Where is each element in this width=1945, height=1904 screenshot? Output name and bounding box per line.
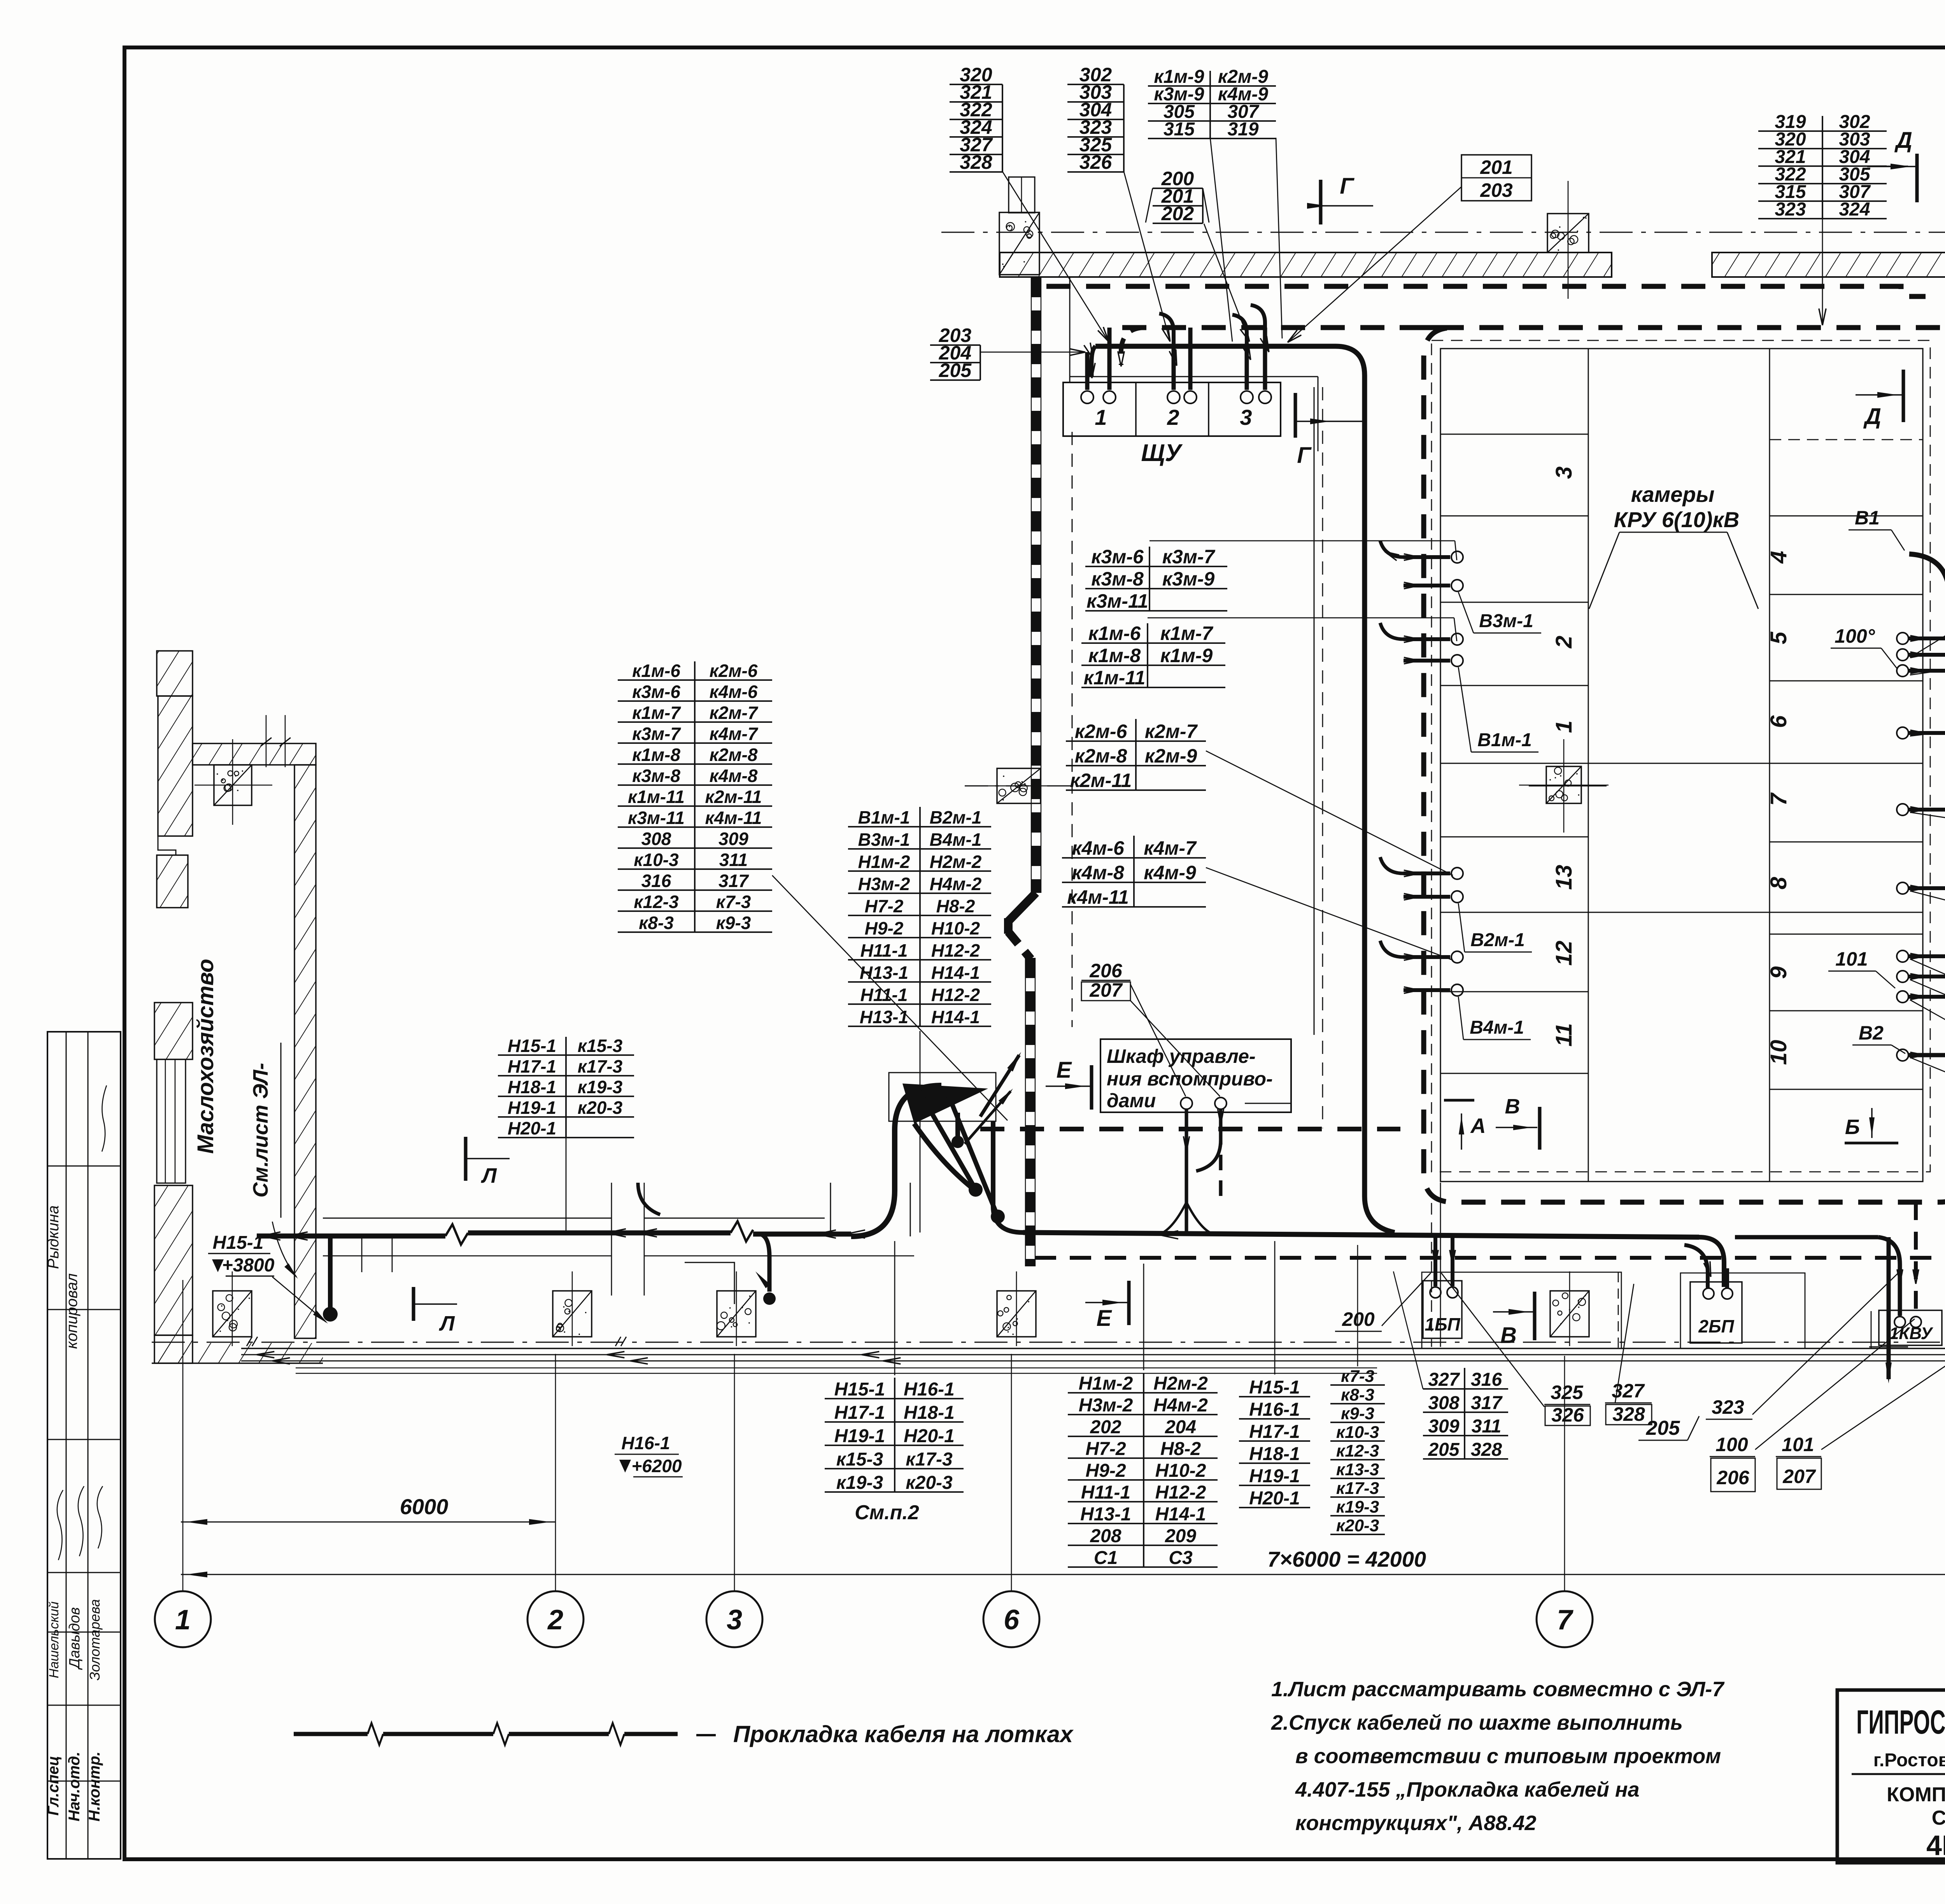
small exit box xyxy=(685,1262,734,1304)
leaders from 01-V2 group xyxy=(1910,959,1945,1078)
left cell cable stubs and circles xyxy=(1404,555,1450,559)
svg-text:2: 2 xyxy=(1551,636,1577,649)
svg-text:к2м-7: к2м-7 xyxy=(1145,721,1198,742)
svg-text:к20-3: к20-3 xyxy=(578,1098,623,1118)
svg-text:Е: Е xyxy=(1057,1057,1072,1083)
column axis1 row A xyxy=(213,1291,252,1337)
svg-text:Н8-2: Н8-2 xyxy=(936,896,975,916)
svg-text:Н1м-2: Н1м-2 xyxy=(1079,1373,1133,1394)
svg-text:Н10-2: Н10-2 xyxy=(1155,1460,1206,1481)
svg-text:10: 10 xyxy=(1766,1040,1791,1065)
svg-text:Г: Г xyxy=(1340,174,1354,199)
svg-text:205: 205 xyxy=(1428,1439,1460,1460)
leader from 325 xyxy=(1441,1273,1544,1407)
svg-text:ния вспомприво-: ния вспомприво- xyxy=(1107,1068,1273,1090)
svg-text:к19-3: к19-3 xyxy=(836,1473,883,1493)
leader from 100 to KVU xyxy=(1755,1319,1915,1450)
svg-text:Н9-2: Н9-2 xyxy=(1085,1460,1126,1481)
knot second cable curve xyxy=(914,1124,972,1188)
grid circle 3 xyxy=(706,1591,762,1647)
svg-text:ГИПРОСТРОЙДОРМАШ: ГИПРОСТРОЙДОРМАШ xyxy=(1856,1703,1945,1741)
svg-text:к7-3: к7-3 xyxy=(1341,1367,1374,1386)
svg-text:к12-3: к12-3 xyxy=(634,892,679,912)
maslo thickness dim ticks xyxy=(266,715,267,767)
svg-text:Е: Е xyxy=(1097,1306,1113,1331)
svg-text:+6200: +6200 xyxy=(631,1456,682,1476)
svg-text:к4м-6: к4м-6 xyxy=(710,682,758,702)
column axis7 row A xyxy=(1550,1291,1589,1337)
svg-text:В3м-1: В3м-1 xyxy=(858,829,910,850)
leader from table 302 xyxy=(1124,172,1170,342)
svg-text:6000: 6000 xyxy=(400,1494,449,1519)
svg-text:к8-3: к8-3 xyxy=(639,913,674,933)
knot curve to shaft xyxy=(993,1121,1023,1233)
box 2BP xyxy=(1690,1282,1742,1343)
svg-text:Н20-1: Н20-1 xyxy=(508,1118,556,1138)
leader from H1m table up xyxy=(1143,1264,1144,1370)
svg-text:2БП: 2БП xyxy=(1698,1316,1734,1336)
axis Bb chain line segments xyxy=(965,785,1089,787)
svg-text:326: 326 xyxy=(1079,151,1113,173)
svg-text:Прокладка кабеля на лотках: Прокладка кабеля на лотках xyxy=(733,1721,1074,1747)
left title strip xyxy=(47,1032,121,1859)
svg-text:Н4м-2: Н4м-2 xyxy=(1153,1395,1208,1416)
svg-text:Н2м-2: Н2м-2 xyxy=(1153,1373,1208,1394)
KRU room inner solid rectangle xyxy=(1440,349,1923,1182)
svg-text:к19-3: к19-3 xyxy=(578,1077,623,1097)
svg-text:325: 325 xyxy=(1551,1382,1584,1403)
svg-text:202: 202 xyxy=(1090,1417,1121,1438)
column axis7 row B xyxy=(1547,214,1589,252)
svg-text:12: 12 xyxy=(1551,941,1577,966)
KRU right dashed row line xyxy=(1770,439,1923,440)
svg-text:к7-3: к7-3 xyxy=(716,892,751,912)
svg-text:328: 328 xyxy=(1612,1403,1645,1425)
svg-text:к19-3: к19-3 xyxy=(1336,1497,1379,1517)
leader from k7 group up xyxy=(1357,1245,1358,1366)
svg-text:Н19-1: Н19-1 xyxy=(1249,1466,1300,1487)
leader from 300-309 xyxy=(1910,704,1945,736)
grid axis drop lines xyxy=(182,1280,184,1591)
svg-text:316: 316 xyxy=(641,871,671,891)
svg-text:Н3м-2: Н3м-2 xyxy=(858,874,910,894)
svg-text:1: 1 xyxy=(1095,405,1107,430)
schU room boundary thin lines xyxy=(1069,277,1071,383)
svg-text:Н11-1: Н11-1 xyxy=(1081,1482,1130,1503)
knot arrow second xyxy=(965,1091,1011,1144)
svg-text:к3м-11: к3м-11 xyxy=(1086,590,1148,612)
dimension line 6000 between axes 1-2 xyxy=(181,1522,555,1523)
maslo west wall piece 4 xyxy=(154,1003,193,1059)
svg-text:В1: В1 xyxy=(1855,507,1880,529)
svg-text:к17-3: к17-3 xyxy=(906,1449,953,1470)
svg-text:С3: С3 xyxy=(1169,1548,1193,1568)
svg-text:А: А xyxy=(1470,1114,1486,1138)
maslo window opening xyxy=(157,1059,186,1183)
see sheet EL arrow xyxy=(272,1222,296,1277)
grid circle 2 xyxy=(527,1591,583,1647)
right side main cable vertical thick xyxy=(1909,554,1945,1301)
svg-text:319: 319 xyxy=(1227,119,1258,140)
svg-text:206: 206 xyxy=(1716,1467,1750,1488)
north wall band right segment xyxy=(1712,252,1945,277)
trench cable arrows xyxy=(257,1355,274,1358)
svg-text:Н18-1: Н18-1 xyxy=(904,1403,955,1423)
corridor thick cable east segment xyxy=(1023,1233,1699,1237)
svg-text:Н15-1: Н15-1 xyxy=(834,1379,885,1400)
leader shelf from k3m table to cells xyxy=(1149,540,1455,542)
svg-text:3: 3 xyxy=(1551,466,1577,479)
svg-text:7: 7 xyxy=(1766,792,1791,806)
svg-text:200: 200 xyxy=(1342,1308,1375,1330)
svg-text:Н12-2: Н12-2 xyxy=(931,940,980,961)
grid circle 6 xyxy=(983,1591,1039,1647)
svg-text:к8-3: к8-3 xyxy=(1341,1385,1374,1404)
SchU room east boundary dashed xyxy=(1322,387,1323,1128)
maslo west wall piece 5 xyxy=(154,1185,193,1335)
svg-text:Н17-1: Н17-1 xyxy=(834,1403,885,1423)
svg-text:Н18-1: Н18-1 xyxy=(508,1077,556,1097)
svg-text:Д: Д xyxy=(1894,128,1912,153)
svg-text:к15-3: к15-3 xyxy=(836,1449,883,1470)
wall break marks xyxy=(247,1337,258,1346)
column axis3 row A xyxy=(717,1291,756,1337)
knot filled triangle xyxy=(902,1083,988,1124)
svg-text:С1: С1 xyxy=(1094,1548,1118,1568)
leader shelf from k1m table to cells xyxy=(1148,617,1454,619)
svg-text:201: 201 xyxy=(1480,156,1512,178)
cable V2 down to 2KVU xyxy=(1908,1055,1945,1080)
svg-text:к10-3: к10-3 xyxy=(634,850,679,870)
leader from 301-313 xyxy=(1910,812,1945,852)
svg-text:к3м-11: к3м-11 xyxy=(628,808,685,828)
svg-text:Н13-1: Н13-1 xyxy=(860,963,908,983)
column axis6 row Bb xyxy=(997,768,1041,803)
corridor cable hook at axis2-3 xyxy=(638,1183,660,1215)
maslo west wall piece 3 xyxy=(157,855,188,908)
left stub hooks on tray xyxy=(1380,541,1404,557)
svg-text:к3м-9: к3м-9 xyxy=(1162,568,1215,590)
svg-text:Н17-1: Н17-1 xyxy=(1249,1422,1300,1442)
svg-text:к1м-8: к1м-8 xyxy=(632,745,680,765)
svg-text:к12-3: к12-3 xyxy=(1336,1441,1379,1460)
svg-text:к1м-7: к1м-7 xyxy=(632,703,681,723)
svg-text:Н16-1: Н16-1 xyxy=(621,1433,670,1453)
svg-text:к15-3: к15-3 xyxy=(578,1036,623,1056)
svg-text:В2м-1: В2м-1 xyxy=(930,807,982,828)
svg-text:к3м-7: к3м-7 xyxy=(632,724,681,744)
pilaster above shaft xyxy=(1009,177,1035,213)
svg-text:См.лист ЭЛ-: См.лист ЭЛ- xyxy=(249,1063,272,1197)
leader from table 320 to cabinet cables xyxy=(1002,172,1109,342)
svg-text:к3м-6: к3м-6 xyxy=(1091,546,1144,568)
leader from 101 to 2KVU xyxy=(1821,1323,1945,1450)
shkaf inner line xyxy=(1245,1103,1291,1104)
cabinet shkaf upravleniya box xyxy=(1100,1039,1291,1112)
svg-text:к10-3: к10-3 xyxy=(1336,1423,1379,1442)
svg-text:311: 311 xyxy=(1472,1416,1502,1437)
svg-text:1: 1 xyxy=(175,1604,191,1636)
svg-text:к3м-6: к3м-6 xyxy=(632,682,680,702)
svg-text:6: 6 xyxy=(1766,715,1791,728)
KRU full span row lines xyxy=(1440,763,1923,764)
svg-text:327: 327 xyxy=(1428,1369,1460,1390)
cables to 1BP xyxy=(1433,1237,1437,1286)
tray stub down at left end dashed xyxy=(1121,328,1146,365)
corridor cable continuation to KVU xyxy=(1735,1235,1878,1240)
axis A horizontal chain line xyxy=(152,1342,1945,1343)
svg-text:к4м-8: к4м-8 xyxy=(1072,862,1124,884)
svg-text:в соответствии с типовым проек: в соответствии с типовым проектом xyxy=(1295,1744,1721,1768)
axis7 vertical chain at wall xyxy=(1568,181,1569,299)
svg-text:к4м-11: к4м-11 xyxy=(1067,886,1129,908)
svg-text:4: 4 xyxy=(1766,551,1791,564)
svg-text:Н7-2: Н7-2 xyxy=(1085,1439,1126,1459)
svg-text:В2: В2 xyxy=(1859,1022,1884,1044)
svg-text:Н14-1: Н14-1 xyxy=(1155,1504,1206,1525)
svg-text:Н16-1: Н16-1 xyxy=(1249,1399,1300,1420)
enclosure around 1BP xyxy=(1422,1272,1621,1348)
svg-text:Н2м-2: Н2м-2 xyxy=(930,852,982,872)
svg-text:В: В xyxy=(1500,1323,1517,1348)
leader from 327 xyxy=(1615,1284,1634,1403)
maslo west wall piece 1 xyxy=(157,651,193,696)
corridor thick cable segment 2 xyxy=(468,1231,731,1236)
corridor door jamb lines xyxy=(361,1237,363,1272)
svg-text:Нашельский: Нашельский xyxy=(47,1601,61,1678)
svg-text:В2м-1: В2м-1 xyxy=(1470,930,1525,950)
corridor cable drop at axis 3 xyxy=(760,1234,769,1292)
main cable run from SchU to KRU (thick) xyxy=(1095,346,1395,1233)
svg-text:209: 209 xyxy=(1165,1526,1196,1546)
svg-text:1БП: 1БП xyxy=(1425,1314,1460,1334)
KRU cells divider left xyxy=(1588,349,1589,1182)
svg-text:2.Спуск кабелей по шахте выпол: 2.Спуск кабелей по шахте выполнить xyxy=(1271,1711,1683,1734)
right cell stubs and circles xyxy=(1908,636,1945,640)
maslo east wall xyxy=(294,765,316,1338)
svg-text:202: 202 xyxy=(1161,203,1194,224)
svg-text:13: 13 xyxy=(1551,865,1577,890)
svg-text:Н12-2: Н12-2 xyxy=(1155,1482,1206,1503)
svg-text:к9-3: к9-3 xyxy=(716,913,751,933)
svg-text:207: 207 xyxy=(1089,979,1123,1001)
svg-text:к3м-8: к3м-8 xyxy=(632,766,680,786)
svg-text:2: 2 xyxy=(547,1604,563,1636)
svg-text:Н10-2: Н10-2 xyxy=(931,918,980,938)
svg-text:101: 101 xyxy=(1782,1434,1814,1455)
svg-text:к1м-11: к1м-11 xyxy=(628,787,685,807)
svg-text:9: 9 xyxy=(1766,966,1791,979)
svg-text:328: 328 xyxy=(1471,1439,1502,1460)
svg-text:Г: Г xyxy=(1297,443,1312,468)
svg-text:Н13-1: Н13-1 xyxy=(860,1007,908,1027)
svg-text:4.407-155 „Прокладка кабелей н: 4.407-155 „Прокладка кабелей на xyxy=(1295,1778,1640,1801)
svg-text:Н20-1: Н20-1 xyxy=(1249,1488,1300,1509)
svg-text:к2м-9: к2м-9 xyxy=(1145,745,1197,767)
svg-text:к4м-7: к4м-7 xyxy=(710,724,759,744)
svg-text:к4м-7: к4м-7 xyxy=(1144,837,1197,859)
leader from 304 row to D flag xyxy=(1887,166,1908,167)
KRU left cell row lines xyxy=(1440,434,1588,435)
leader from V1m table down xyxy=(920,1031,921,1233)
cable drops to cabinet pair 1 xyxy=(1085,352,1090,390)
leader from 01-V1 upper xyxy=(1910,634,1945,675)
svg-text:Шкаф управле-: Шкаф управле- xyxy=(1107,1045,1256,1067)
svg-text:Маслохозяйство: Маслохозяйство xyxy=(193,959,218,1154)
svg-text:3: 3 xyxy=(1240,405,1252,430)
svg-text:Д: Д xyxy=(1863,404,1881,429)
svg-text:Золотарева: Золотарева xyxy=(87,1599,103,1680)
svg-text:к20-3: к20-3 xyxy=(906,1473,953,1493)
svg-text:Л: Л xyxy=(438,1312,455,1335)
leader from big table to knot xyxy=(772,875,1008,1120)
svg-text:камеры: камеры xyxy=(1631,482,1715,507)
svg-text:+3800: +3800 xyxy=(222,1255,275,1276)
maslo west wall piece 6 xyxy=(154,1335,193,1363)
svg-text:317: 317 xyxy=(1471,1393,1503,1413)
svg-text:Н20-1: Н20-1 xyxy=(904,1426,955,1446)
leader from 327 group xyxy=(1393,1271,1423,1389)
svg-text:4К-250А: 4К-250А xyxy=(1926,1830,1945,1861)
svg-text:7: 7 xyxy=(1557,1604,1574,1636)
svg-text:к4м-8: к4м-8 xyxy=(710,766,758,786)
shaft wall black-white dashed line upper xyxy=(1031,277,1041,893)
svg-text:В3м-1: В3м-1 xyxy=(1479,611,1533,631)
svg-text:конструкциях", А88.42: конструкциях", А88.42 xyxy=(1295,1811,1536,1835)
svg-text:В: В xyxy=(1505,1095,1520,1118)
svg-text:к17-3: к17-3 xyxy=(578,1056,623,1076)
svg-text:311: 311 xyxy=(719,850,748,870)
svg-text:5: 5 xyxy=(1766,631,1791,644)
svg-text:Н19-1: Н19-1 xyxy=(508,1098,556,1118)
svg-text:328: 328 xyxy=(960,151,992,173)
svg-text:к3м-8: к3м-8 xyxy=(1091,568,1144,590)
svg-text:В1м-1: В1м-1 xyxy=(858,807,910,828)
svg-text:2: 2 xyxy=(1167,405,1179,430)
corridor north wall thin line segments xyxy=(323,1218,612,1219)
svg-text:Н15-1: Н15-1 xyxy=(213,1233,264,1253)
box 1KVU xyxy=(1879,1310,1942,1345)
cables to 1KVU xyxy=(1914,1202,1918,1317)
column axis2 row A xyxy=(553,1291,592,1337)
svg-text:СТАНЦИЯ: СТАНЦИЯ xyxy=(1932,1807,1945,1829)
cable drops to cabinet pair 2 xyxy=(1172,346,1176,390)
leaders from 313-322 xyxy=(1910,1000,1945,1150)
svg-text:309: 309 xyxy=(1428,1416,1459,1437)
svg-text:Н14-1: Н14-1 xyxy=(931,963,980,983)
svg-text:323: 323 xyxy=(1712,1396,1744,1418)
svg-text:к2м-11: к2м-11 xyxy=(1070,770,1132,791)
svg-text:Н12-2: Н12-2 xyxy=(931,985,980,1005)
svg-text:к1м-7: к1м-7 xyxy=(1160,622,1214,644)
svg-text:Н11-1: Н11-1 xyxy=(860,940,908,961)
column axis6 row A xyxy=(997,1291,1036,1337)
svg-text:Н17-1: Н17-1 xyxy=(508,1056,556,1076)
svg-text:1: 1 xyxy=(1551,721,1577,733)
leader from 300-305 to cell xyxy=(1910,491,1945,657)
svg-text:204: 204 xyxy=(1165,1417,1196,1438)
grid circle 7 xyxy=(1537,1591,1593,1647)
maslo cable drop xyxy=(328,1234,333,1307)
leaders from table k1m-9 xyxy=(1210,138,1232,342)
svg-text:208: 208 xyxy=(1090,1526,1121,1546)
svg-text:к1м-6: к1м-6 xyxy=(1088,622,1141,644)
section marker V lower wall xyxy=(1533,1292,1537,1340)
svg-text:308: 308 xyxy=(641,829,671,849)
svg-text:6: 6 xyxy=(1004,1604,1020,1636)
maslo top band xyxy=(193,743,316,765)
knot thick cable from corridor up xyxy=(851,1085,941,1236)
svg-text:Н7-2: Н7-2 xyxy=(865,896,904,916)
svg-text:323: 323 xyxy=(1775,199,1806,220)
cable tray along north wall heavy dashed xyxy=(1046,286,1926,296)
svg-text:205: 205 xyxy=(939,359,972,381)
svg-text:Н19-1: Н19-1 xyxy=(834,1426,885,1446)
svg-text:Н9-2: Н9-2 xyxy=(865,918,904,938)
svg-text:к4м-11: к4м-11 xyxy=(705,808,762,828)
legend tray line with breaks xyxy=(294,1732,368,1736)
cable tray loop around KRU room heavy dashed xyxy=(1122,328,1945,1202)
svg-text:Н.контр.: Н.контр. xyxy=(86,1751,103,1822)
leader from 205 up xyxy=(1699,1240,1732,1416)
svg-text:Н8-2: Н8-2 xyxy=(1160,1439,1201,1459)
column axis7 row Bb xyxy=(1546,766,1581,803)
south wall hatched band left xyxy=(152,1343,323,1363)
strip signature squiggles xyxy=(102,1085,107,1152)
svg-text:100°: 100° xyxy=(1835,625,1875,647)
svg-text:Н13-1: Н13-1 xyxy=(1080,1504,1131,1525)
leader from H15 group down xyxy=(566,1138,567,1231)
thick cable down to shaft with arrow xyxy=(1887,1237,1891,1379)
section marker D lower xyxy=(1902,370,1905,422)
leaders from k4m table to cells xyxy=(1206,868,1453,960)
leader from table 200 xyxy=(1204,224,1249,342)
svg-text:к1м-11: к1м-11 xyxy=(1084,667,1146,689)
svg-text:Рыдкина: Рыдкина xyxy=(45,1205,62,1269)
svg-text:Н15-1: Н15-1 xyxy=(1249,1377,1300,1398)
section marker L lower xyxy=(412,1287,415,1321)
cable break zigzag 2 xyxy=(731,1221,753,1241)
svg-text:8: 8 xyxy=(1766,877,1791,889)
svg-text:Н3м-2: Н3м-2 xyxy=(1079,1395,1133,1416)
cable break zigzag 1 xyxy=(445,1224,468,1245)
svg-text:дами: дами xyxy=(1107,1090,1156,1112)
leader from 203-205 to cable xyxy=(980,352,1084,353)
svg-text:к3м-7: к3м-7 xyxy=(1162,546,1216,568)
svg-text:11: 11 xyxy=(1551,1023,1577,1047)
svg-text:Н16-1: Н16-1 xyxy=(904,1379,955,1400)
svg-text:к2м-6: к2м-6 xyxy=(710,661,758,681)
maslo west wall notch xyxy=(158,836,188,855)
box 1BP xyxy=(1423,1281,1462,1338)
svg-text:315: 315 xyxy=(1163,119,1195,140)
table 201 203 boxed xyxy=(1461,155,1531,201)
SchU room east boundary solid xyxy=(1314,387,1315,1035)
leader from H15-1 to cable dot xyxy=(272,1277,326,1322)
knot vertical thin line xyxy=(830,1183,831,1236)
svg-text:Н14-1: Н14-1 xyxy=(931,1007,980,1027)
leader arrowheads top tables xyxy=(1103,327,1109,342)
svg-text:В1м-1: В1м-1 xyxy=(1477,730,1532,750)
svg-text:к2м-7: к2м-7 xyxy=(710,703,759,723)
svg-text:к2м-11: к2м-11 xyxy=(705,787,762,807)
maslo west wall piece 2 xyxy=(158,696,193,836)
svg-text:к20-3: к20-3 xyxy=(1336,1516,1379,1535)
KRU room inner dashed rectangle xyxy=(1432,340,1930,1172)
leader from H15 table up xyxy=(894,1241,895,1375)
corridor thick cable west segment xyxy=(257,1234,445,1239)
svg-text:См.п.2: См.п.2 xyxy=(855,1501,919,1524)
